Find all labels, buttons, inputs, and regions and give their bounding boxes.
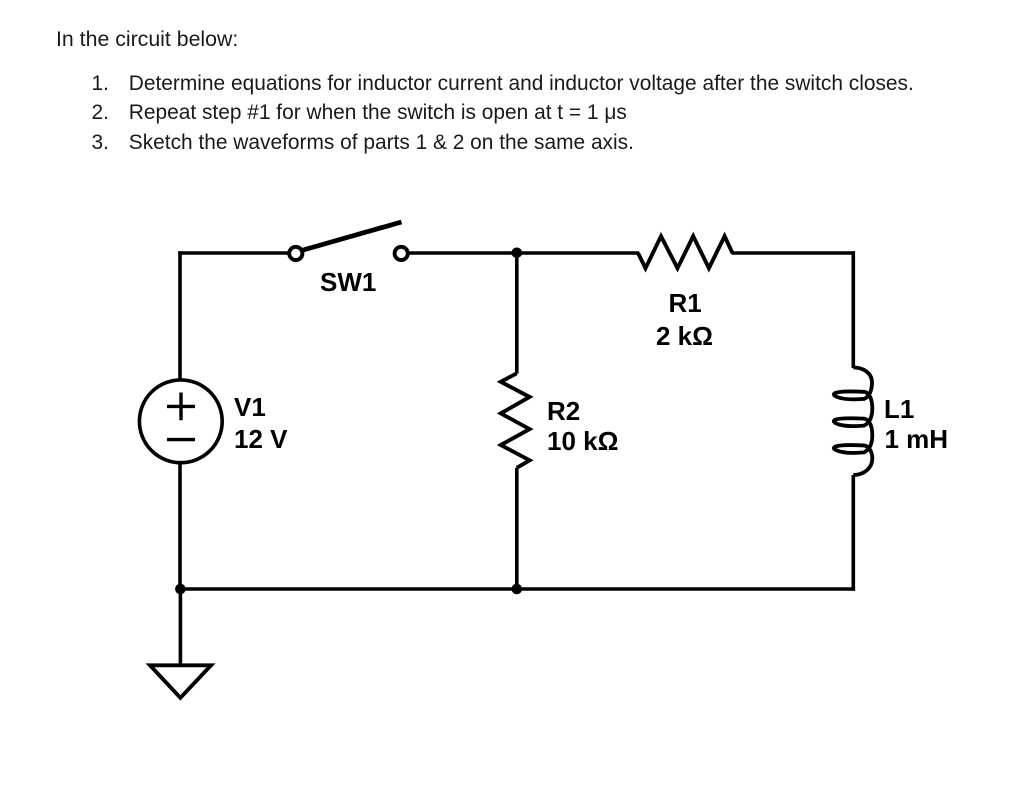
- ground triangle: [150, 665, 211, 698]
- switch blade SW1: [298, 222, 402, 252]
- inductor L1 coil: [834, 367, 872, 475]
- switch right contact circle: [395, 247, 408, 260]
- list item 2 text: [129, 103, 627, 124]
- wire: R1 right lead to top-right corner: [732, 251, 855, 255]
- V1 minus sign: [167, 438, 195, 441]
- label R1 value 2 kOhm: [656, 323, 713, 349]
- label R2 value 10 kOhm: [547, 428, 618, 454]
- wire: switch right to R1 left lead: [408, 251, 639, 255]
- resistor R1 zigzag: [638, 236, 732, 268]
- resistor R2 zigzag: [501, 373, 530, 468]
- list item 1 number: [92, 74, 109, 95]
- wire: R2 branch vertical lower: [515, 468, 519, 591]
- label L1 value 1 mH: [885, 426, 949, 452]
- wire: bottom horizontal: [178, 587, 855, 591]
- list item 2 number: [92, 103, 109, 124]
- list item 1 text: [129, 74, 914, 95]
- label SW1: [320, 269, 376, 295]
- label V1 value 12 V: [234, 426, 288, 452]
- wire: top-left horizontal to switch: [178, 251, 289, 255]
- V1 plus sign: [167, 393, 195, 421]
- wire: ground stub: [179, 589, 183, 665]
- wire: left vertical upper (source top): [178, 251, 182, 380]
- junction dot bottom-left (source node): [175, 584, 186, 595]
- wire: left vertical lower (source bottom): [178, 463, 182, 591]
- wire: R2 branch vertical upper: [515, 253, 519, 374]
- voltage source V1 circle: [139, 380, 222, 463]
- heading text: [56, 29, 238, 50]
- label R1: [669, 290, 702, 316]
- junction dot top (R2 top node): [512, 248, 523, 259]
- junction dot bottom (R2 bottom node): [512, 584, 523, 595]
- label L1: [884, 396, 914, 422]
- list item 3 number: [92, 133, 109, 154]
- label R2: [547, 398, 580, 424]
- switch left contact circle: [289, 247, 302, 260]
- list item 3 text: [129, 133, 634, 154]
- wire: right vertical upper (to inductor): [851, 251, 855, 368]
- wire: right vertical lower (inductor to bottom): [851, 475, 855, 591]
- label V1: [234, 394, 266, 420]
